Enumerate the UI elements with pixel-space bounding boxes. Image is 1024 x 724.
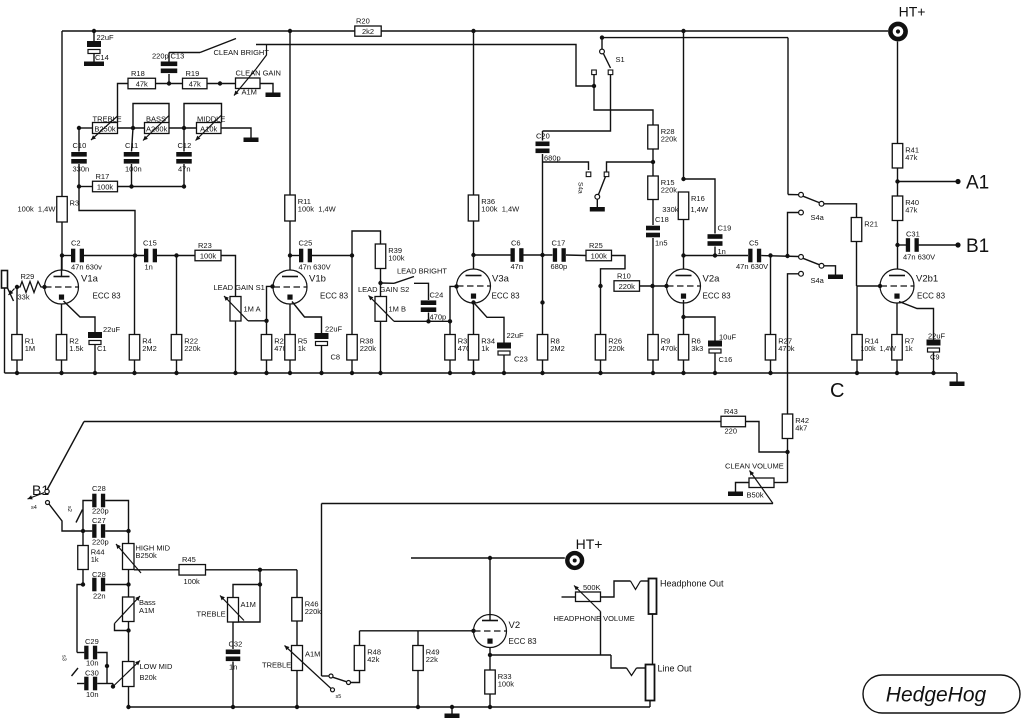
node V3a plate [471,253,475,257]
node R18-R19-C13 [167,81,171,85]
wire jack link [652,614,654,665]
svg-text:10n: 10n [86,690,99,699]
wire bottom bus [129,706,651,708]
svg-text:220p: 220p [92,507,109,516]
resistor R5 1k [285,335,296,361]
wiper BASS [143,116,169,141]
svg-text:C27: C27 [92,516,106,525]
svg-text:CLEAN BRIGHT: CLEAN BRIGHT [214,48,270,57]
svg-text:22n: 22n [93,592,106,601]
wire C30 right [97,683,113,685]
svg-text:47n: 47n [511,262,524,271]
switch LEAD BRIGHT lever [381,282,394,284]
svg-text:1k: 1k [905,344,913,353]
switch s4 contact [46,501,50,505]
svg-text:42k: 42k [367,655,379,664]
svg-text:S4a: S4a [577,182,584,194]
capacitor C6 47n [474,254,511,256]
wire ground bus [5,372,958,374]
svg-text:R43: R43 [724,407,738,416]
wire R43 to R42 column [746,422,788,453]
svg-text:R10: R10 [617,271,631,280]
node bus junction [681,371,685,375]
capacitor C8 22uF [315,333,329,339]
wire 1MA wiper to V1b grid [248,320,267,322]
capacitor C27 220p [92,524,96,538]
svg-text:S4a: S4a [811,213,825,222]
wire loop right side [233,585,260,623]
capacitor C17 680p [553,248,557,262]
node C25-R39-R38 [350,253,354,257]
wire V3a cathode to C23 [475,304,504,343]
svg-text:500K: 500K [583,583,601,592]
wire R15 to C18 [652,200,654,226]
node bus junction [93,371,97,375]
wire left rail drop to R3 [61,31,63,197]
svg-text:R25: R25 [589,241,603,250]
svg-text:C14: C14 [95,53,109,62]
node V2 plate [488,556,492,560]
wiper CLEAN VOLUME [750,471,774,504]
svg-text:B250k: B250k [136,551,158,560]
wire C25 to node [312,255,352,257]
svg-text:47n 630V: 47n 630V [903,253,935,262]
wire wiper down [600,612,602,656]
svg-text:2M2: 2M2 [142,344,157,353]
svg-text:A280k: A280k [146,125,168,134]
wiper TREBLE left [220,596,244,621]
svg-text:C29: C29 [85,637,99,646]
wire C5 to S4a [761,256,798,257]
svg-text:22uF: 22uF [928,332,946,341]
wire CLEAN GAIN right to ground [260,84,273,93]
svg-text:100k: 100k [498,680,515,689]
svg-text:100k: 100k [200,252,217,261]
node tone-C11 [131,126,135,130]
resistor R33 100k [485,670,496,694]
svg-text:C24: C24 [430,291,444,300]
wire V1b cathode to C8 [292,302,322,334]
resistor R29 33k zigzag [17,282,45,293]
wire V1a cathode to R2 [61,304,63,335]
wire cathode to C16 [684,317,716,341]
svg-text:3k3: 3k3 [691,344,703,353]
node bus junction [855,371,859,375]
wire contact to R42 column [788,274,799,414]
node bus junction [378,371,382,375]
svg-text:100n: 100n [125,165,142,174]
svg-text:1.5k: 1.5k [69,344,83,353]
wire R26 column [600,286,602,335]
wire R46 to TREBLE A1M [296,621,298,646]
wire tone output to grid node [79,187,135,256]
svg-text:1M A: 1M A [244,305,261,314]
wire S1 right contact to C20 [543,75,611,131]
wire s4 to C27 row [49,504,92,531]
wire CLEAN BRIGHT to S1 area [256,45,594,87]
resistor R8 2M2 [537,335,548,361]
wire R44 to C28b [82,570,84,585]
wire R49 to bus [417,671,419,708]
resistor R1 1M [12,335,23,361]
terminal A1 [898,181,959,183]
svg-text:C15: C15 [143,239,157,248]
svg-text:s5: s5 [336,694,342,700]
wire R35 column [449,321,451,334]
wire V2 cathode [489,648,491,656]
svg-text:A1M: A1M [241,600,256,609]
svg-text:A1: A1 [966,173,989,194]
wiper LEAD GAIN S1 [224,296,248,321]
wire LEAD BRIGHT contact to C24 [414,283,429,300]
node bus junction [174,371,178,375]
svg-text:100k 1,4W: 100k 1,4W [298,205,337,214]
svg-text:330k: 330k [662,205,679,214]
svg-text:220k: 220k [661,186,678,195]
wire rail to R11 [289,31,291,195]
node bus junction [931,371,935,375]
svg-text:2k2: 2k2 [362,27,374,36]
svg-text:10n: 10n [86,659,99,668]
node bus junction [15,371,19,375]
svg-text:ECC 83: ECC 83 [93,292,122,301]
wire cathode row [490,654,611,656]
wiper TREBLE A1M [285,646,332,689]
svg-text:220: 220 [725,427,738,436]
node V2 cathode [488,653,492,657]
capacitor C2 47n 630v [62,255,72,257]
connector notch headphone [631,581,641,590]
wire 1MB wiper to V3a grid [394,320,450,322]
wiper TREBLE [91,116,118,140]
resistor R46 220k [292,598,303,622]
svg-text:LEAD BRIGHT: LEAD BRIGHT [397,267,447,276]
svg-text:100k: 100k [591,252,608,261]
ground CLEAN GAIN [266,93,281,98]
resistor R19 47k [183,78,208,89]
svg-text:TREBLE: TREBLE [197,610,226,619]
node R10-R9 column [650,284,654,288]
node C24 bottom [426,319,430,323]
wire C17 to R25 [566,254,586,257]
capacitor C1 22uF [88,332,102,338]
resistor R15 220k [648,176,659,200]
node V2a grid [664,284,668,288]
svg-text:220p: 220p [152,52,169,61]
potentiometer HIGH MID B250k [123,544,135,570]
wire to R46 [296,570,298,598]
node V2a plate [681,253,685,257]
wire to R39 [352,231,381,256]
wire R25 to R10 [601,256,626,287]
svg-text:B250k: B250k [94,125,116,134]
node R28-R15 [651,160,655,164]
wire pot left to ground [736,483,750,492]
node S1 top [600,35,604,39]
svg-text:R29: R29 [21,272,35,281]
node C29 right [105,664,109,668]
wire line out to bus [649,701,651,708]
svg-text:CLEAN VOLUME: CLEAN VOLUME [725,462,784,471]
svg-text:C16: C16 [719,355,733,364]
capacitor C19 1n [708,234,723,239]
wire V1a cathode to C1 [64,301,96,332]
logo HedgeHog [863,675,1020,713]
svg-text:C11: C11 [125,141,138,150]
svg-text:100k 1,4W: 100k 1,4W [481,205,520,214]
wire R17 row [79,186,93,188]
node bottom bus junction [295,705,299,709]
node V2 grid [471,629,475,633]
svg-text:1M: 1M [25,344,35,353]
wire to jack [641,580,649,582]
wire C20 down [542,154,544,335]
capacitor C28 22n [92,578,96,592]
wire C28b right [105,584,128,586]
capacitor C16 10uF [708,341,722,347]
switch contact bottom [799,271,804,276]
capacitor C5 47n 630V [748,249,752,263]
jack Line Out [646,665,655,701]
wire C29 right [97,653,107,667]
wire R24 column [266,321,268,335]
resistor R44 1k [78,546,89,570]
wire 500K left stub [562,596,576,598]
resistor R28 220k [648,125,659,149]
svg-text:ECC 83: ECC 83 [917,292,946,301]
node V1b plate [288,253,292,257]
wire B1 diagonal link [48,422,85,490]
switch S1 [601,38,603,49]
svg-text:100k 1,4W: 100k 1,4W [861,346,897,353]
wire 1MA bottom to bus [235,321,237,373]
resistor R4 2M2 [129,335,140,361]
svg-text:BASS: BASS [146,115,166,124]
node R17-C10 [77,184,81,188]
ground S4a left [590,207,605,212]
wire R45 right [206,569,298,571]
capacitor C13 220p [168,74,170,84]
node C19 bottom [713,253,717,257]
node rail-R36 [471,29,475,33]
potentiometer CLEAN GAIN A1M [236,78,261,89]
svg-text:ECC 83: ECC 83 [509,637,538,646]
potentiometer TREBLE A1M right [292,646,303,671]
node bottom bus junction [488,705,492,709]
node C31 [895,243,899,247]
capacitor C20 680p [542,131,544,141]
svg-text:22uF: 22uF [97,33,115,42]
wire R18 to treble pot [118,84,129,123]
svg-text:R23: R23 [198,241,212,250]
svg-text:ECC 83: ECC 83 [320,292,349,301]
wire TREBLE to C32 [232,622,234,649]
ground bottom bus [451,707,453,714]
wire R22 column [176,256,178,335]
wire s5 to R48 [351,671,360,683]
svg-text:470k: 470k [778,344,795,353]
node bottom bus junction [126,705,130,709]
wire rail to R36 [473,31,475,195]
svg-text:R20: R20 [356,17,370,26]
node V3a grid [454,284,458,288]
node R45-R46 [258,568,262,572]
potentiometer HEADPHONE VOLUME 500K [576,592,601,602]
resistor R3 100k 1,4W [57,197,68,223]
svg-text:A10k: A10k [200,125,217,134]
contact TREBLE wiper [331,688,335,692]
wire C27 right [105,530,128,532]
wire plate into tube [61,256,63,277]
capacitor C15 1n [144,249,148,263]
svg-text:R14: R14 [865,337,879,346]
node LOW MID wiper [111,684,115,688]
svg-text:220k: 220k [661,135,678,144]
node C15-R22 [174,253,178,257]
resistor R36 100k 1,4W [468,195,479,221]
svg-text:C5: C5 [749,239,759,248]
wire S4a lower to ground [824,266,836,275]
resistor R9 470k [648,335,659,361]
node rail-R16 [681,29,685,33]
node bus junction [768,371,772,375]
wire C20 to S4a-left [543,162,589,170]
svg-text:C12: C12 [178,141,192,150]
input arrow B1 [28,493,45,499]
svg-text:V2: V2 [509,620,521,631]
node C6-C17 column [540,253,544,257]
node bus junction [502,371,506,375]
tube V3a ECC 83 [457,269,521,303]
wire C6 to C17 [524,254,553,256]
capacitor C25 47n 630V [290,255,299,257]
wire R3 to plate node [61,222,63,270]
node bus junction [598,371,602,375]
wire to line out jack [637,667,646,669]
resistor R27 470k [765,335,776,361]
jack Headphone Out [649,579,657,615]
svg-text:HEADPHONE VOLUME: HEADPHONE VOLUME [554,614,635,623]
resistor R7 1k [892,335,903,361]
resistor R49 22k [413,646,424,671]
switch S4a right lower [799,255,804,260]
svg-text:1n: 1n [145,263,153,272]
svg-text:680p: 680p [544,154,561,163]
wire R1 column [16,287,18,335]
node R17-C11 [129,184,133,188]
wire 1MB bottom to bus [380,321,382,373]
svg-text:1n: 1n [718,247,726,256]
potentiometer MIDDLE A10k [197,123,222,134]
wire R40 to V2b1 plate [897,221,899,270]
svg-text:C1: C1 [97,344,107,353]
resistor R6 3k3 [678,335,689,361]
node V2b1 grid [878,284,882,288]
svg-text:47k: 47k [905,153,917,162]
svg-text:V2a: V2a [703,274,721,285]
svg-text:C31: C31 [906,230,920,239]
svg-text:s3: s3 [61,655,67,661]
svg-text:HT+: HT+ [576,536,603,552]
svg-text:C2: C2 [71,239,81,248]
resistor R43 220 [721,416,746,427]
node R10 left [598,284,602,288]
wire V3a cathode to R34 [473,303,475,335]
wire R27 column [770,256,772,335]
node grid riser-R35 [448,319,452,323]
resistor R18 47k [128,78,156,89]
node bus junction [471,371,475,375]
svg-text:ECC 83: ECC 83 [492,292,521,301]
wire Bass wiper elbow [115,624,129,631]
svg-text:C6: C6 [511,239,521,248]
resistor R26 220k [595,335,606,361]
svg-text:4k7: 4k7 [795,424,807,433]
svg-text:ECC 83: ECC 83 [703,292,732,301]
wire R49 stem [417,631,419,646]
svg-text:33k: 33k [18,293,30,302]
node bus junction [713,371,717,375]
node tone-C12 [182,126,186,130]
potentiometer LEAD GAIN S2 1M B [375,297,387,322]
tube V1a ECC 83 [45,270,122,304]
svg-text:1,4W: 1,4W [691,205,709,214]
wire C13 top [168,53,170,62]
svg-text:R21: R21 [864,220,878,229]
node C5-S4a column [785,254,789,258]
node bus junction [651,371,655,375]
resistor R10 220k [614,281,640,292]
potentiometer BASS A280k [145,123,170,134]
svg-text:R3: R3 [70,199,80,208]
svg-text:HT+: HT+ [899,4,926,20]
tube V2a ECC 83 [667,269,732,303]
wire B1 feed column [321,504,323,677]
svg-text:C10: C10 [73,141,87,150]
wire riser to V3a grid [450,286,457,321]
resistor R40 47k [892,196,903,221]
svg-text:220k: 220k [360,344,377,353]
svg-text:47n 630V: 47n 630V [299,263,331,272]
node tone-C10 [77,126,81,130]
resistor R23 100k [195,250,221,261]
wire C15 to R23 [157,255,195,257]
switch s3 lever [72,668,79,676]
svg-text:LEAD GAIN S1: LEAD GAIN S1 [214,283,265,292]
input jack lever [8,288,14,301]
svg-text:S1: S1 [616,55,625,64]
svg-text:47k: 47k [136,80,148,89]
wire R38 column [351,256,353,335]
node grid wire-R4 [133,253,137,257]
wiper 500K [574,586,601,612]
capacitor C9 22uF [927,340,941,346]
capacitor C18 1n5 [646,226,660,231]
potentiometer TREBLE A1M left [228,598,239,623]
wire R48 top to grid wire [359,631,361,646]
wire B1 link horizontal [84,421,721,423]
resistor R20 2k2 in HT rail [355,26,381,36]
resistor R42 4k7 [782,414,793,439]
resistor R45 100k [179,565,206,576]
wire R39 to node [380,269,382,297]
svg-text:C30: C30 [85,669,99,678]
wire to V1b grid [267,286,273,320]
wire node to S4a contact [607,162,654,172]
svg-text:C28: C28 [92,570,106,579]
svg-text:B20k: B20k [140,673,157,682]
svg-text:LEAD GAIN S2: LEAD GAIN S2 [358,285,409,294]
